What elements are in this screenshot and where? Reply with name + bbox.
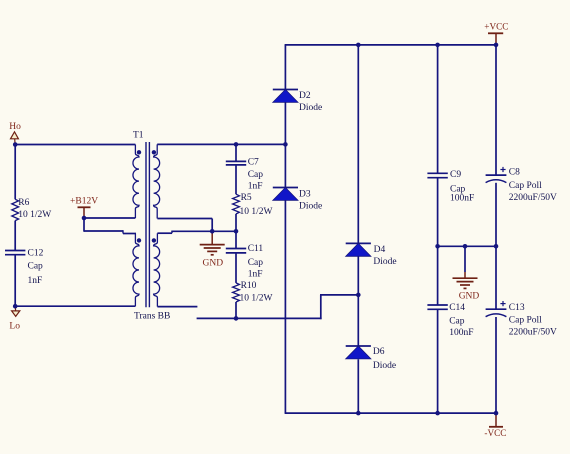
svg-text:10 1/2W: 10 1/2W: [240, 207, 273, 217]
svg-text:R5: R5: [241, 193, 252, 203]
svg-text:Diode: Diode: [373, 361, 396, 371]
svg-text:Cap: Cap: [28, 262, 44, 272]
svg-text:GND: GND: [203, 258, 224, 268]
svg-text:C8: C8: [509, 167, 520, 177]
svg-text:1nF: 1nF: [248, 181, 263, 191]
svg-text:D6: D6: [373, 347, 385, 357]
svg-text:R10: R10: [241, 281, 257, 291]
svg-text:R6: R6: [18, 198, 29, 208]
svg-text:10 1/2W: 10 1/2W: [240, 293, 273, 303]
svg-text:2200uF/50V: 2200uF/50V: [509, 193, 557, 203]
svg-text:C7: C7: [248, 157, 259, 167]
svg-text:Trans BB: Trans BB: [134, 312, 170, 322]
svg-text:C14: C14: [449, 303, 465, 313]
svg-text:Diode: Diode: [373, 257, 396, 267]
svg-text:C12: C12: [28, 249, 44, 259]
svg-text:+B12V: +B12V: [70, 196, 98, 206]
svg-text:100nF: 100nF: [450, 194, 474, 204]
svg-text:Cap: Cap: [248, 258, 264, 268]
svg-text:Cap Poll: Cap Poll: [509, 316, 542, 326]
svg-text:C9: C9: [450, 170, 461, 180]
svg-text:-VCC: -VCC: [484, 428, 506, 438]
svg-text:C11: C11: [248, 244, 264, 254]
svg-text:T1: T1: [133, 130, 144, 140]
svg-text:D4: D4: [374, 245, 386, 255]
svg-text:GND: GND: [459, 292, 480, 302]
svg-text:C13: C13: [509, 303, 525, 313]
svg-text:Ho: Ho: [9, 122, 21, 132]
svg-text:Cap: Cap: [248, 170, 264, 180]
svg-text:1nF: 1nF: [28, 276, 43, 286]
svg-text:Diode: Diode: [299, 202, 322, 212]
svg-text:Diode: Diode: [299, 103, 322, 113]
svg-text:2200uF/50V: 2200uF/50V: [509, 328, 557, 338]
svg-text:100nF: 100nF: [449, 328, 473, 338]
svg-text:D3: D3: [299, 190, 311, 200]
svg-text:D2: D2: [299, 91, 311, 101]
svg-text:Cap: Cap: [449, 316, 465, 326]
svg-text:Cap Poll: Cap Poll: [509, 181, 542, 191]
svg-text:10 1/2W: 10 1/2W: [18, 210, 51, 220]
svg-text:1nF: 1nF: [248, 270, 263, 280]
svg-text:Lo: Lo: [9, 322, 20, 332]
svg-text:+VCC: +VCC: [484, 21, 508, 31]
